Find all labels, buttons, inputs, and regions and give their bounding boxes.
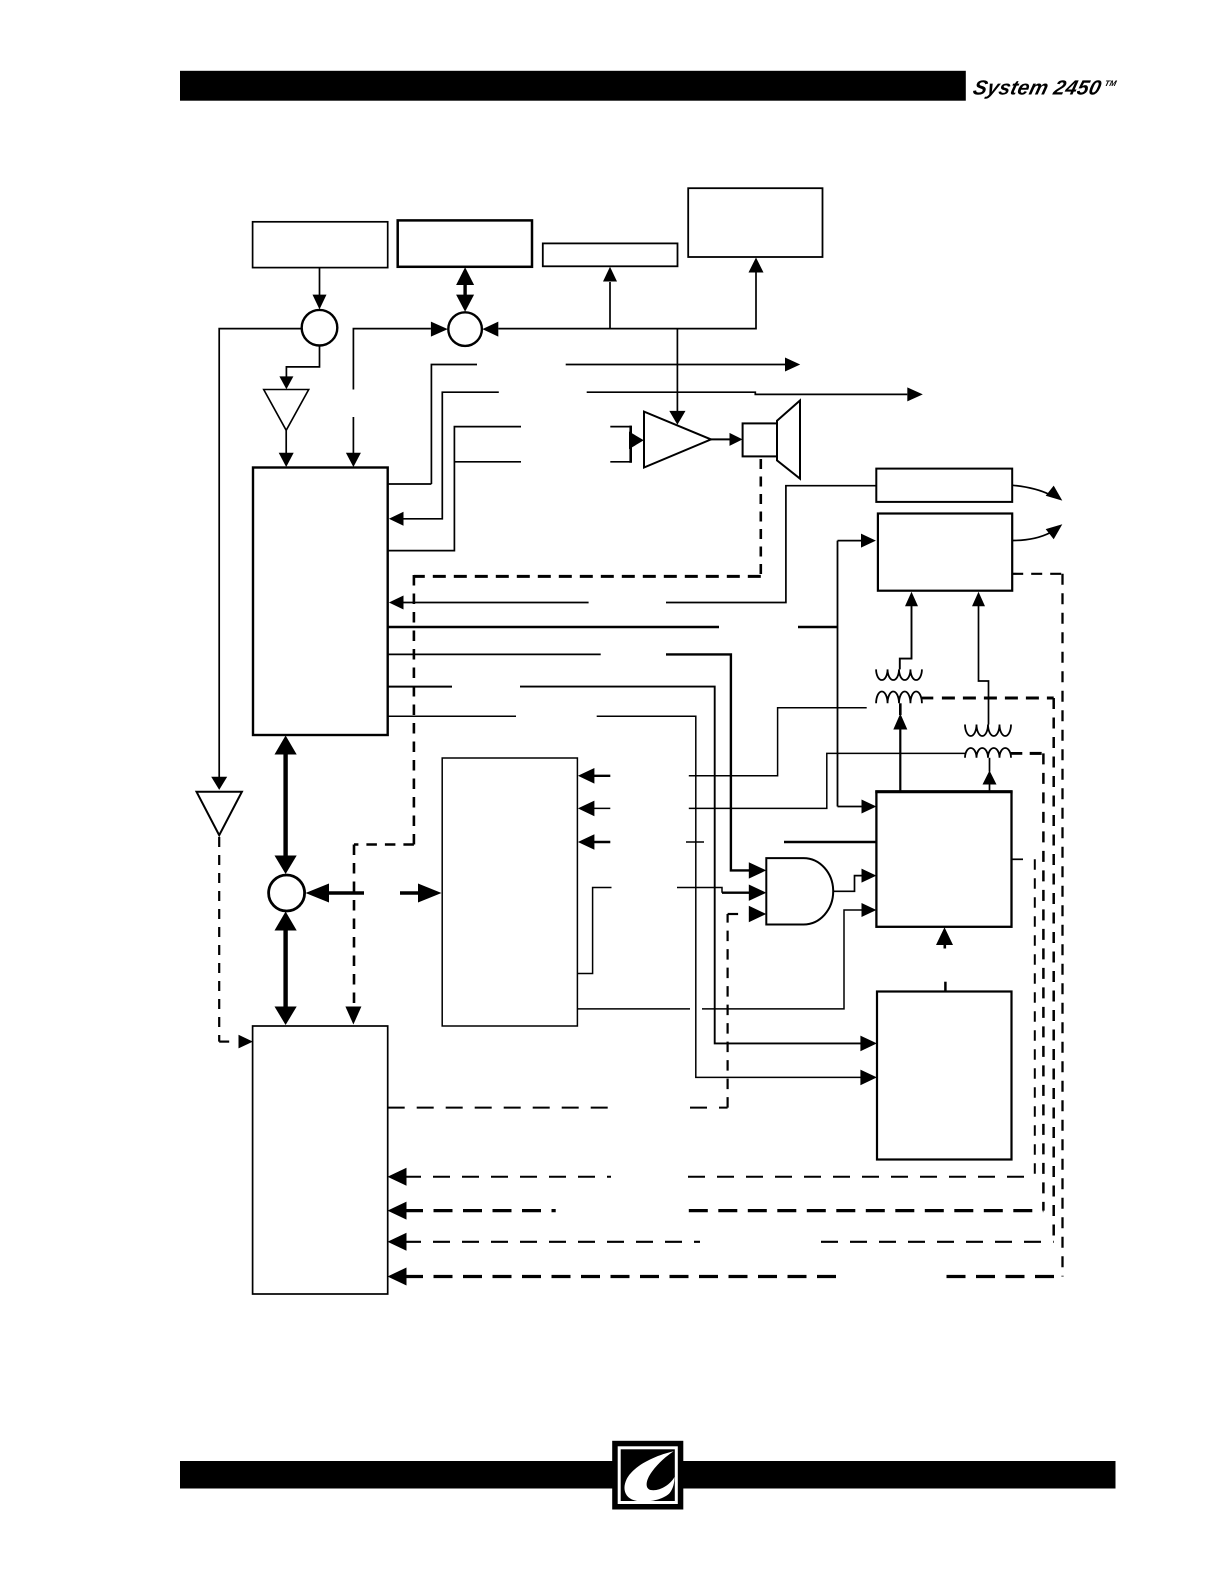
wire boxD input1 tail [594,775,610,777]
arrowhead up into C3 bottom [275,912,297,931]
bracket bar before amp A1 [629,426,632,463]
arrowhead into boxA left (none) / into boxB left [861,534,876,548]
arrowhead into boxD input3 [578,834,595,850]
transformer TX2 top coil [965,725,1011,737]
arrowhead bracket into amp A1 [629,432,644,450]
block boxA (top right thin) [876,469,1012,502]
wire boxD input2 tail [594,807,610,809]
wire boxM stub y=602 to boxA [403,602,589,604]
arrowhead down into C3 top [275,856,297,875]
arrowhead into boxC input1 [862,800,877,814]
wire AND output jog to boxC input3 [833,876,862,892]
wire long arrow y=364 segment b [566,364,785,366]
wire y=462 branch from x=454 column [454,461,521,463]
dashed wire boxB right output [1012,573,1062,575]
arrowhead into boxD left [418,884,442,903]
arrowhead into AND input3 [749,906,767,922]
wire y=686 segment b down x=715 to boxF input1 [520,687,861,1044]
arrowhead into boxE input2 [388,1202,407,1220]
wire boxM stub y=654 segment a [388,653,601,655]
wire boxD input3 tail [594,841,610,843]
block box3 [543,243,678,266]
dashed wire x=354 down to boxE top [353,845,356,1008]
arrowhead into boxC input3 from AND [862,869,877,883]
block box2 [398,220,532,266]
wire C2 right bus y=328 [498,273,756,329]
wire TX1 tap to boxB bottom [900,606,912,669]
arrowhead into AND input2 [749,885,767,901]
header logo text "System 2450" [971,77,1118,100]
dashed wire x=414 down [413,575,416,845]
wire arrow shaft into boxC bottom [943,945,946,949]
transformer TX1 bottom coil [876,691,922,703]
dashed wire jog left at y=844 [354,843,414,846]
transformer TX2 bottom coil [965,748,1011,758]
arrowhead into boxF input1 [860,1036,877,1052]
arrowhead curved from boxA [1046,486,1063,501]
arrowhead up TX2 bottom tap [983,771,997,785]
wire boxD output y=1008 segment a [577,1008,690,1010]
wire T2 apex to boxM top [285,430,287,454]
wire AND input2 segment with jog [677,888,722,893]
footer bar [180,1461,1116,1489]
arrowhead into boxF input2 [860,1070,877,1086]
block boxD (middle) [442,758,577,1026]
wire into boxB left [838,540,863,542]
arrowhead into C2 right [482,322,498,337]
wire long arrow y=392 segment a [403,392,499,519]
thick shaft boxM-C3 [283,751,287,859]
dashed wire speaker down [759,459,762,576]
wire TX2 bottom tap upper [989,758,991,772]
arrowhead up into box3 [603,267,617,282]
wire amp A1 output to speaker [711,438,731,440]
svg-text:System 2450: System 2450 [971,77,1104,100]
arrowhead down into boxM top right [346,453,361,467]
dashed wire TX1 right output [942,697,1054,700]
mixer circle C1 [302,310,338,346]
dashed vertical x=1043 (TX2 chain) [1042,753,1045,1210]
dashed wire TX2 right output [1030,752,1044,755]
svg-text:TM: TM [1104,79,1118,88]
arrowhead into boxM y=518 [389,512,404,526]
wire TX1 bottom tap lower to boxC [899,730,901,792]
wire y=716 segment b down x=696 to boxF input2 [597,716,862,1077]
dashed wire boxE input4 y=1276 (heavy) [404,1275,845,1278]
dashed wire y=576 to left [414,575,761,578]
wire C3/boxD double arrow shaft b [400,891,419,895]
wire C1 bottom jog to T2 [286,346,319,378]
block boxB [878,514,1012,591]
arrowhead curved from boxB [1046,524,1063,539]
dashed vertical x=1034 (boxC chain) [1034,859,1036,1177]
arrowhead down into T2 [279,376,293,389]
wire boxM stub y=686 segment a [388,686,452,688]
mixer circle C3 [269,875,305,911]
AND gate U1 [766,858,833,924]
wire y=426 right stub into bracket [610,426,630,428]
arrowhead up into box4 [749,258,764,273]
dashed wire antenna T3 down [218,837,220,1042]
arrowhead into boxE input3 [388,1233,407,1251]
speaker SP1 horn [777,401,800,479]
wire y=462 right stub into bracket [610,461,630,463]
wire branch up to box3 [609,282,611,329]
wire into boxC input1 [838,806,863,808]
wire y=1008 segment b up x=844 to boxC input4 [702,910,862,1009]
arrowhead up into box2 [456,267,474,285]
arrowhead up into boxB bottom from TX1 [905,592,918,606]
wire TX2 bottom tap lower to boxC [989,785,991,792]
arrowhead into boxE input1 [388,1168,407,1186]
dashed vertical x=1053 (TX1 chain) [1052,698,1055,1242]
arrowhead into C2 left [431,322,448,337]
wire C3/boxD double arrow shaft a [329,891,364,895]
block boxM (main controller) [253,468,388,736]
wire TX2 tap to boxB bottom [979,606,989,725]
block box4 [688,188,822,257]
wire boxD input3 middle segment [686,841,704,843]
arrowhead down into C2 [456,295,474,312]
arrowhead into boxD input2 [578,801,595,817]
arrowhead into boxD input1 [578,768,595,784]
transformer TX1 top coil [876,669,922,680]
wire boxC right stub (solid part) [1012,858,1024,860]
arrowhead long arrow y=364 [785,358,800,372]
wire branch down to amp A1 top [676,329,678,412]
wire AND input2 thick tail [722,892,750,894]
swoosh [624,1451,674,1501]
wire TX2 right stub (solid) [1011,752,1022,755]
dashed stub into AND input3 [728,913,744,915]
wire boxD output y=973 up to AND input2 [577,888,611,974]
dashed vertical x=1062 (boxB chain) [1061,574,1063,1277]
mixer circle C2 [448,312,482,346]
dashed wire x=727 up to AND input3 [726,914,728,1108]
arrowhead into boxE input4 [388,1268,407,1286]
curved arrow from boxB [1013,533,1051,541]
wire TX1 right stub (solid) [922,697,933,700]
block box1 (top left) [253,222,388,268]
arrowhead into boxC input4 [862,903,877,917]
wire boxM stub y=484 [388,483,432,485]
wire box2/C2 bidirectional shaft [463,281,466,298]
arrowhead into AND input1 [749,862,767,878]
antenna triangle T3 (down) [197,792,242,836]
wire C2 left input from x=353 column [353,329,431,390]
arrowhead down into boxM top left [279,453,294,467]
dashed wire boxE input3 y=1241 [404,1241,700,1243]
speaker SP1 driver box [743,423,777,456]
arrowhead down into boxE top [275,1007,297,1026]
thick shaft C3-boxE [283,927,287,1010]
wire long arrow y=364 segment a [431,365,477,485]
wire x=353 column lower segment into boxM [352,417,354,454]
footer logo square [612,1441,683,1510]
dashed wire boxE input2 y=1210 (heavy) [404,1209,556,1212]
block boxE (bottom left) [253,1026,388,1294]
wire boxF top stub [944,982,947,992]
header bar [180,71,966,101]
block boxF (bottom right) [877,992,1012,1160]
arrowhead long arrow y=394 [907,387,923,401]
arrowhead up into boxB bottom from TX2 [972,592,985,606]
block boxC thick top edge [875,790,1012,793]
wire y=654 segment b down x=731 to AND input1 [666,654,750,870]
wire boxM stub y=550 via x=454 column [388,427,521,551]
arrowhead down into boxE top (dashed line) [345,1007,361,1025]
wire boxM stub y=627 segment a [388,626,719,628]
wire box1 to C1 [319,268,321,296]
arrowhead amp A1 to speaker [730,433,743,446]
arrowhead into boxM y=602 [389,596,404,610]
wire TX1 bottom tap upper (thick) [899,703,902,715]
arrowhead up into boxM bottom (thick pair) [275,736,297,755]
wire boxM stub y=716 segment a [388,715,516,717]
wire boxD input2 from TX2 left terminal [689,753,965,808]
arrowhead into C3 right [306,884,330,903]
dashed wire into boxE left [219,1040,234,1042]
wire long arrow y=392 segment b with jog [587,392,908,394]
dashed wire boxE input1 y=1176 [404,1176,611,1178]
wire boxC output to boxD input3 (thick) [784,841,876,843]
dashed wire boxE output y=1107 [388,1107,609,1109]
arrowhead up TX1 bottom tap [893,714,907,730]
wire y=627 segment b to x=837 column [798,626,838,628]
wire left bus: C1 left to antenna column [219,329,302,778]
wire boxD input1 from TX1 left terminal [689,708,867,776]
block boxC [876,792,1011,927]
amplifier triangle T2 (down) [264,390,309,431]
arrowhead down into amp A1 top [669,411,685,425]
wire y=602 segment b up to boxA [666,486,876,603]
arrowhead box1 to C1 [313,295,327,310]
wire x=837 column (boxB arrow down to boxC arrow) [837,541,839,807]
arrowhead into boxE left (dashed) [239,1035,253,1049]
arrowhead down into antenna T3 [211,777,227,790]
arrowhead up into boxC bottom [936,927,953,945]
curved arrow from boxA [1013,485,1050,494]
amplifier triangle A1 (right) [644,412,711,468]
